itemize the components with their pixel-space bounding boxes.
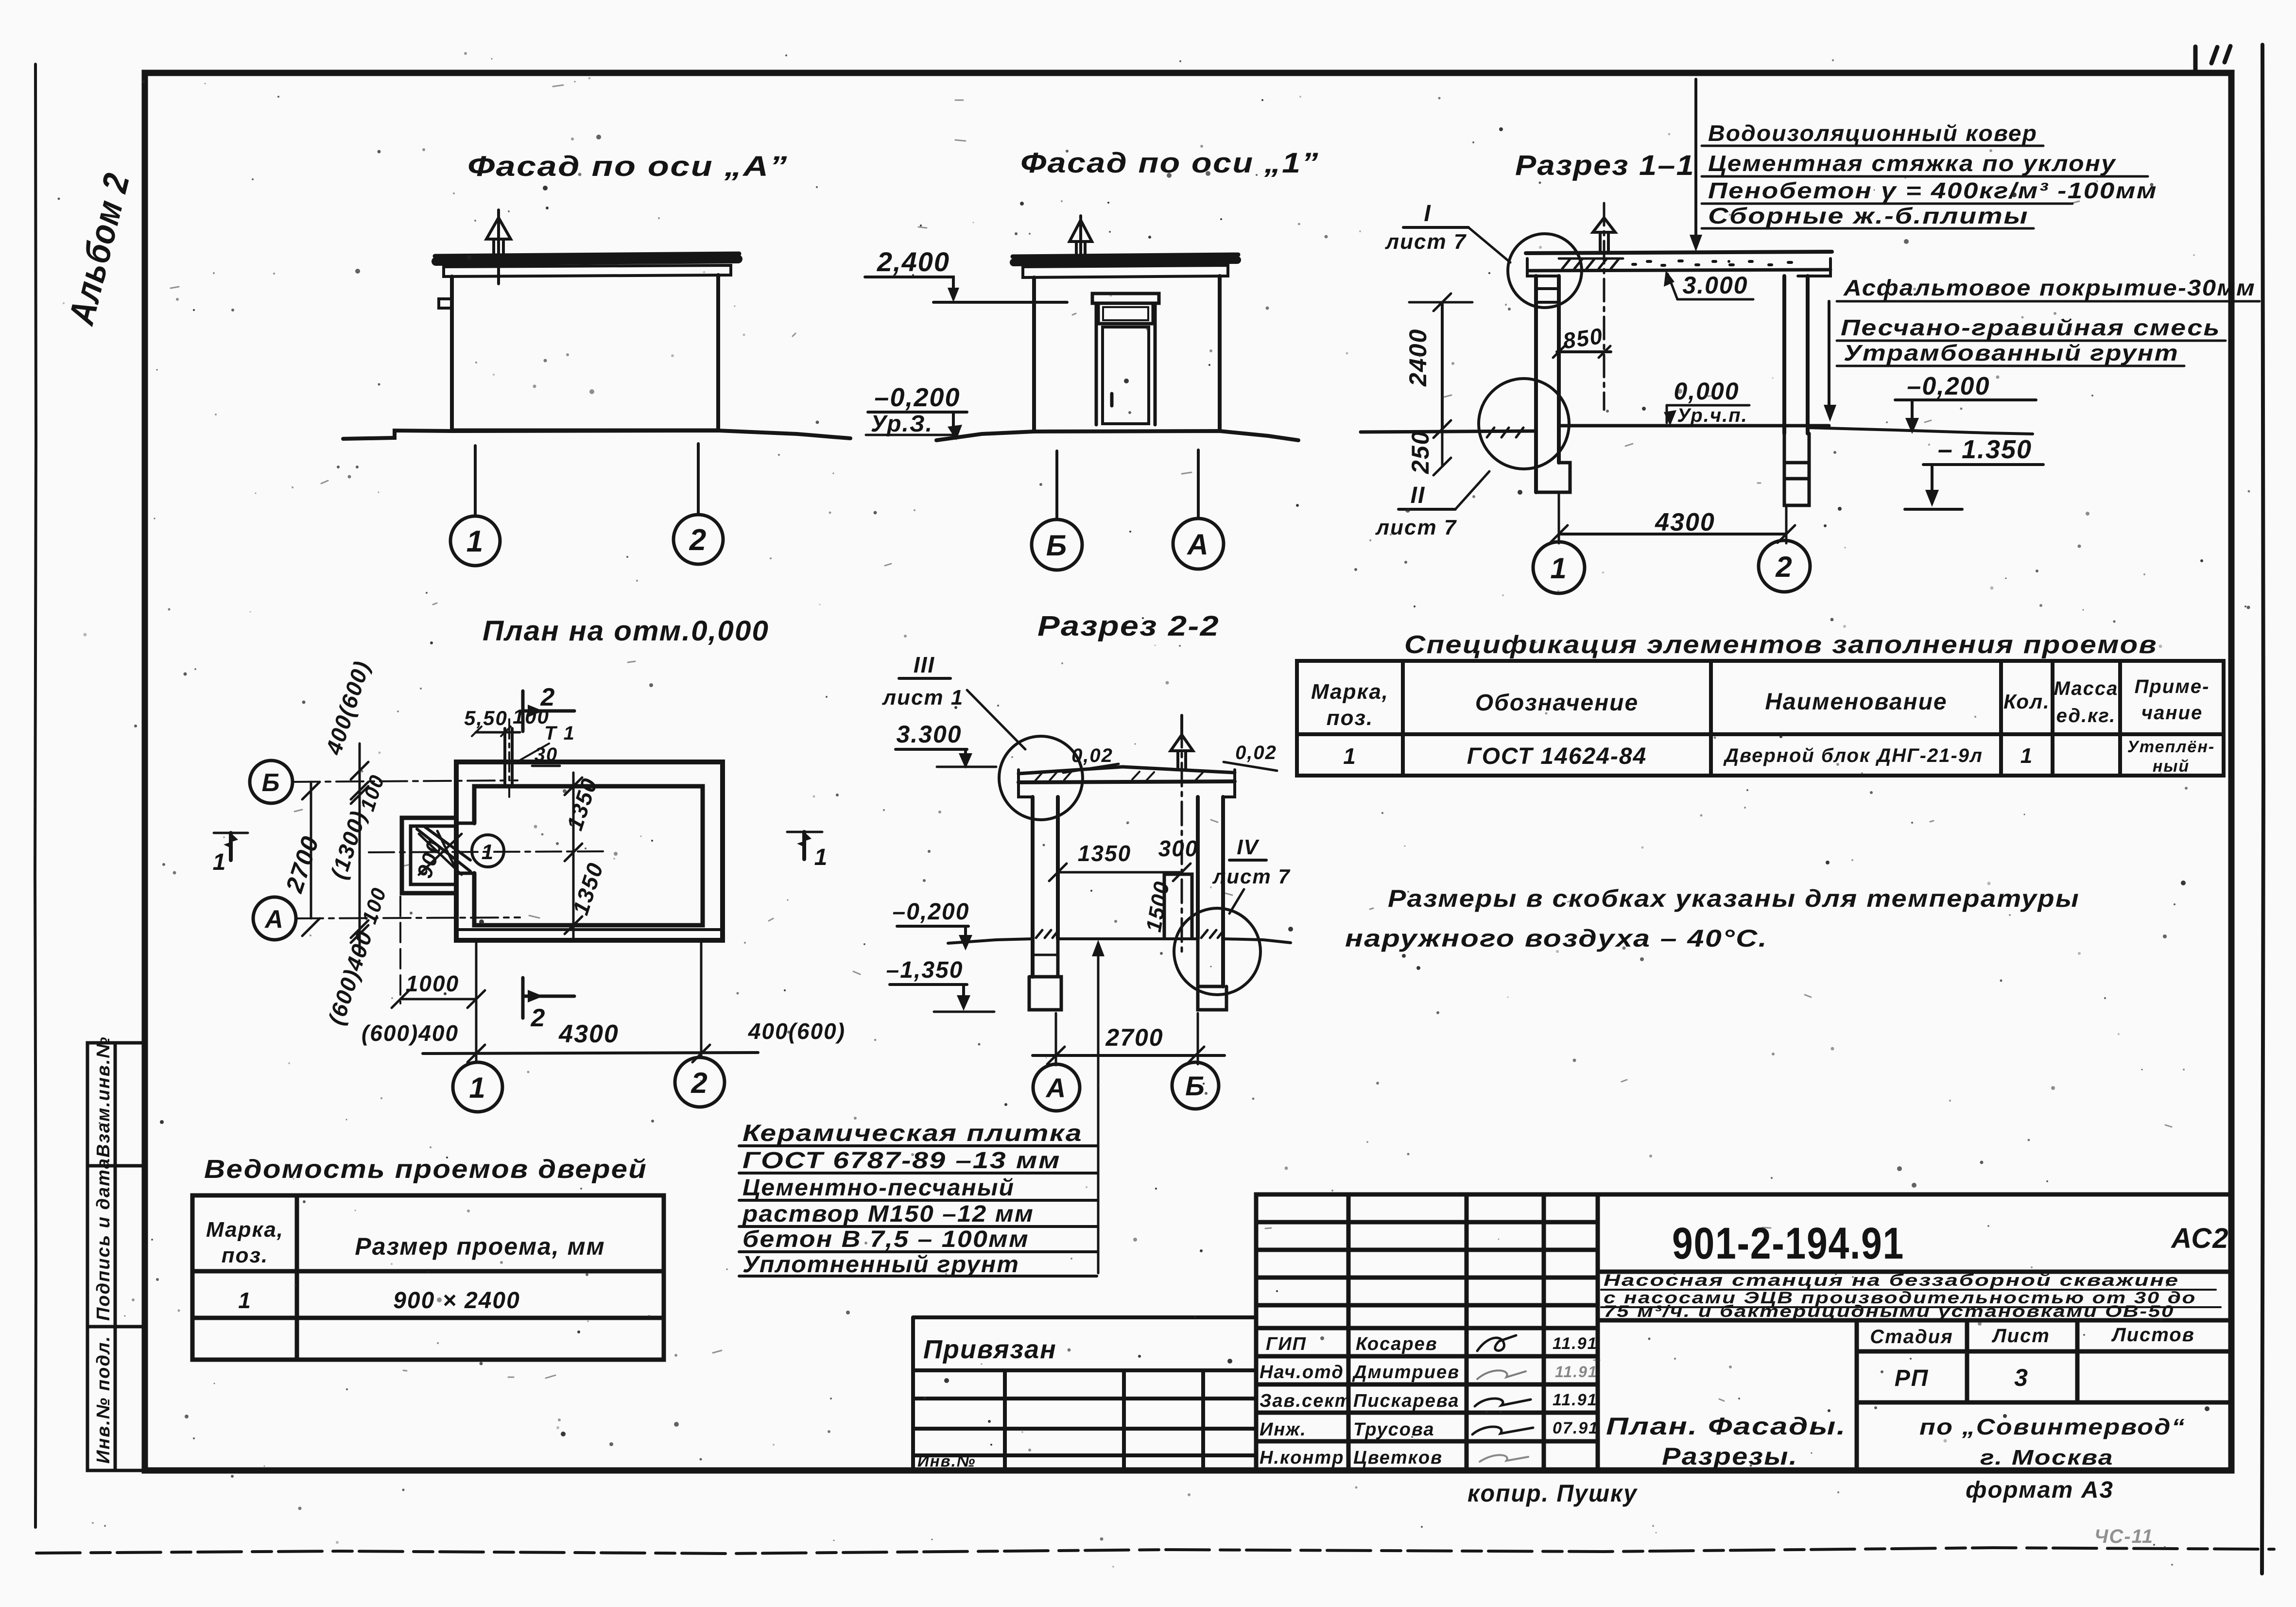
section mark 2 bottom bbox=[523, 978, 574, 1018]
svg-text:400(600): 400(600) bbox=[321, 657, 375, 758]
door opening jambs bbox=[456, 823, 474, 873]
svg-text:Цветков: Цветков bbox=[1353, 1448, 1443, 1468]
svg-text:0,02: 0,02 bbox=[1235, 742, 1277, 763]
right cornice bbox=[1798, 259, 1830, 276]
axis circle 1 bbox=[450, 516, 500, 566]
svg-text:Марка,: Марка, bbox=[206, 1218, 284, 1242]
svg-text:лист 1: лист 1 bbox=[882, 686, 964, 709]
vestibule inner walls bbox=[411, 826, 456, 884]
axis 2 leader line bbox=[697, 444, 700, 515]
vestibule diagonal cross bbox=[419, 834, 462, 875]
svg-text:Ур.ч.п.: Ур.ч.п. bbox=[1677, 405, 1748, 426]
svg-text:3.300: 3.300 bbox=[896, 721, 962, 748]
svg-text:2700: 2700 bbox=[1105, 1024, 1163, 1051]
svg-text:1: 1 bbox=[2020, 744, 2033, 768]
axis circle 1 bbox=[1533, 542, 1585, 593]
cornice bbox=[1023, 265, 1228, 277]
right wall foundation blocks bbox=[1784, 433, 1809, 505]
roof slab sloped bbox=[1019, 767, 1235, 774]
svg-text:Нач.отд: Нач.отд bbox=[1260, 1362, 1344, 1382]
section mark 1-1 left bbox=[229, 833, 233, 860]
svg-text:Пискарева: Пискарева bbox=[1353, 1391, 1459, 1411]
door block: head casing bbox=[1092, 294, 1159, 303]
svg-text:Б: Б bbox=[262, 769, 281, 797]
left vertical dim 2700 bbox=[310, 782, 312, 918]
svg-text:2400: 2400 bbox=[1404, 328, 1432, 387]
svg-text:3: 3 bbox=[2014, 1364, 2029, 1391]
svg-text:Привязан: Привязан bbox=[923, 1335, 1057, 1364]
svg-text:Б: Б bbox=[1046, 529, 1068, 562]
svg-text:1: 1 bbox=[1343, 743, 1357, 769]
main drawing frame bbox=[145, 73, 2231, 1470]
svg-text:Кол.: Кол. bbox=[2003, 690, 2050, 713]
axis 2 extension below bbox=[700, 943, 703, 1057]
svg-text:копир. Пушку: копир. Пушку bbox=[1467, 1480, 1638, 1507]
svg-text:Цементно-песчаный: Цементно-песчаный bbox=[742, 1175, 1015, 1201]
svg-text:Водоизоляционный ковер: Водоизоляционный ковер bbox=[1708, 121, 2037, 146]
spec table grid bbox=[1297, 661, 2224, 776]
roof slab gravel dots bbox=[1633, 261, 1792, 265]
building walls bbox=[452, 275, 718, 430]
svg-text:раствор М150 –12 мм: раствор М150 –12 мм bbox=[742, 1201, 1034, 1227]
roof notes leader arrow bbox=[1694, 79, 1697, 243]
svg-text:ГОСТ 6787-89 –13 мм: ГОСТ 6787-89 –13 мм bbox=[742, 1148, 1061, 1174]
axis circle 2 bbox=[673, 515, 723, 564]
svg-text:III: III bbox=[914, 652, 935, 677]
svg-text:по „Совинтервод“: по „Совинтервод“ bbox=[1919, 1414, 2186, 1439]
floor leader vertical with up arrow bbox=[1097, 945, 1100, 1273]
detail circle IV bbox=[1174, 908, 1260, 995]
svg-text:Разрезы.: Разрезы. bbox=[1662, 1443, 1798, 1470]
svg-text:1: 1 bbox=[814, 845, 829, 870]
svg-text:лист 7: лист 7 bbox=[1212, 865, 1291, 888]
svg-text:4300: 4300 bbox=[1655, 508, 1715, 536]
axis circle B bbox=[1032, 519, 1082, 570]
svg-text:1: 1 bbox=[466, 525, 484, 558]
svg-text:II: II bbox=[1411, 483, 1426, 508]
svg-text:ГИП: ГИП bbox=[1266, 1334, 1307, 1354]
svg-text:Инв.№: Инв.№ bbox=[917, 1452, 976, 1470]
svg-text:ед.кг.: ед.кг. bbox=[2056, 705, 2116, 726]
svg-text:ГОСТ 14624-84: ГОСТ 14624-84 bbox=[1467, 743, 1647, 769]
svg-text:400(600): 400(600) bbox=[748, 1019, 846, 1044]
svg-text:Косарев: Косарев bbox=[1356, 1334, 1438, 1354]
svg-text:Разрез 2-2: Разрез 2-2 bbox=[1037, 610, 1220, 642]
svg-text:Дверной блок ДНГ-21-9л: Дверной блок ДНГ-21-9л bbox=[1723, 745, 1983, 766]
svg-text:300: 300 bbox=[1158, 836, 1199, 861]
svg-text:– 1.350: – 1.350 bbox=[1938, 435, 2032, 464]
svg-text:Керамическая плитка: Керамическая плитка bbox=[742, 1121, 1083, 1146]
paper left edge line bbox=[35, 64, 36, 1527]
svg-text:РП: РП bbox=[1895, 1365, 1929, 1391]
svg-text:Размеры в скобках указаны: Размеры в скобках указаны для температур… bbox=[1388, 885, 2080, 912]
svg-text:I: I bbox=[1424, 201, 1431, 226]
svg-text:5,50: 5,50 bbox=[464, 707, 508, 729]
bottom dim line bbox=[423, 1053, 758, 1054]
svg-text:–0,200: –0,200 bbox=[874, 383, 960, 412]
section mark 1-1 right bbox=[802, 832, 806, 859]
svg-text:лист 7: лист 7 bbox=[1385, 230, 1467, 254]
svg-text:ный: ный bbox=[2153, 757, 2190, 776]
left roof cornice bbox=[1019, 770, 1033, 797]
cornice bbox=[444, 265, 731, 276]
axis circle A bottom bbox=[1033, 1064, 1080, 1111]
vent pipe axis dash-dot bbox=[1181, 724, 1183, 951]
svg-text:2: 2 bbox=[689, 523, 707, 557]
plan inner wall rectangle bbox=[474, 786, 703, 925]
detail circle II bbox=[1479, 379, 1569, 469]
vent pipe axis dash-dot bbox=[1603, 203, 1605, 410]
door transom window bbox=[1098, 303, 1153, 324]
axis A dash-dot line bbox=[296, 917, 520, 918]
vent pipe with hollow arrow bbox=[486, 210, 511, 284]
left wall section bbox=[1033, 797, 1058, 977]
small latch on left wall bbox=[439, 299, 452, 308]
left attribute strip: Vzam.inv.N / Podpis i data / Inv.N podl. bbox=[87, 1043, 145, 1470]
left wall footing bbox=[1536, 463, 1570, 492]
svg-text:Утеплён-: Утеплён- bbox=[2127, 738, 2215, 756]
building walls bbox=[1034, 276, 1220, 431]
left wall bbox=[1536, 276, 1559, 492]
door leaf bbox=[1103, 327, 1149, 424]
svg-text:Сборные ж.-б.плиты: Сборные ж.-б.плиты bbox=[1708, 203, 2029, 228]
svg-text:Взам.инв.№: Взам.инв.№ bbox=[93, 1036, 114, 1158]
svg-text:Асфальтовое покрытие-30мм: Асфальтовое покрытие-30мм bbox=[1843, 275, 2256, 300]
ground line bbox=[343, 431, 850, 439]
svg-text:–1,350: –1,350 bbox=[886, 957, 964, 983]
detail circle I bbox=[1508, 234, 1582, 308]
svg-text:900 × 2400: 900 × 2400 bbox=[393, 1288, 520, 1313]
svg-text:30: 30 bbox=[535, 744, 558, 765]
axis circle 2 bbox=[1759, 540, 1810, 592]
svg-text:Уплотненный грунт: Уплотненный грунт bbox=[742, 1252, 1019, 1278]
svg-text:Фасад по оси „А”: Фасад по оси „А” bbox=[467, 151, 788, 182]
axis circle B bottom bbox=[1172, 1062, 1219, 1109]
horizontal door axis dash-dot bbox=[369, 851, 603, 852]
axis 1 leader line bbox=[474, 446, 477, 516]
right margin vertical line bbox=[2262, 45, 2263, 1573]
axis circle A left bbox=[253, 897, 296, 940]
svg-text:–0,200: –0,200 bbox=[1907, 372, 1990, 400]
svg-text:Б: Б bbox=[1185, 1071, 1206, 1101]
svg-text:Н.контр: Н.контр bbox=[1260, 1448, 1344, 1468]
svg-text:850: 850 bbox=[1561, 323, 1605, 354]
svg-text:Инж.: Инж. bbox=[1260, 1419, 1307, 1440]
svg-text:11.91: 11.91 bbox=[1553, 1334, 1598, 1353]
svg-text:Альбом 2: Альбом 2 bbox=[61, 169, 138, 329]
axis circle B left bbox=[250, 760, 293, 803]
interior partition line bottom bbox=[456, 928, 723, 931]
svg-text:Марка,: Марка, bbox=[1311, 680, 1389, 704]
svg-text:Инв.№ подл.: Инв.№ подл. bbox=[93, 1335, 114, 1464]
axis circle 2 bottom bbox=[675, 1057, 725, 1107]
svg-text:1: 1 bbox=[238, 1288, 252, 1313]
svg-text:АС2: АС2 bbox=[2170, 1223, 2229, 1254]
right foundation bbox=[1198, 939, 1226, 1010]
svg-text:Подпись и дата: Подпись и дата bbox=[93, 1158, 114, 1321]
door handle mark bbox=[1110, 394, 1114, 406]
svg-text:Песчано-гравийная смесь: Песчано-гравийная смесь bbox=[1841, 315, 2221, 340]
bottom paper fold dashed line bbox=[36, 1548, 2274, 1554]
svg-text:2: 2 bbox=[1775, 551, 1793, 583]
svg-text:2,400: 2,400 bbox=[877, 246, 950, 277]
axis A leader line bbox=[1197, 450, 1200, 518]
vent pipe with hollow arrow bbox=[1070, 216, 1092, 257]
svg-text:4300: 4300 bbox=[558, 1020, 619, 1048]
svg-text:наружного воздуха – 40°С.: наружного воздуха – 40°С. bbox=[1345, 925, 1768, 952]
svg-text:Пенобетон γ = 400кг/м³ -100мм: Пенобетон γ = 400кг/м³ -100мм bbox=[1708, 178, 2158, 203]
plan outer wall rectangle bbox=[456, 762, 723, 940]
wall base line bbox=[452, 429, 718, 432]
ground notes leader arrow bbox=[1828, 301, 1830, 413]
floor line bbox=[1559, 424, 1829, 428]
room interior vertical dim line bbox=[572, 773, 575, 938]
sheet number mark 11 bbox=[2211, 46, 2230, 63]
detail circle III bbox=[999, 736, 1083, 820]
svg-text:07.91: 07.91 bbox=[1553, 1419, 1599, 1437]
vestibule dashed extension bbox=[399, 897, 401, 1003]
svg-text:Цементная стяжка по уклону: Цементная стяжка по уклону bbox=[1708, 151, 2116, 176]
roof slab dark band bbox=[1013, 255, 1238, 257]
vent pipe hollow arrow bbox=[1178, 751, 1186, 769]
dim 250 vertical bbox=[1433, 429, 1451, 475]
svg-text:ЧС-11: ЧС-11 bbox=[2094, 1526, 2154, 1547]
svg-text:бетон В 7,5 – 100мм: бетон В 7,5 – 100мм bbox=[742, 1227, 1029, 1252]
svg-text:2700: 2700 bbox=[280, 832, 324, 897]
svg-text:(600)400: (600)400 bbox=[362, 1020, 459, 1046]
dim 2400 vertical bbox=[1441, 302, 1444, 429]
ground line bbox=[936, 431, 1298, 440]
vent pipe with hollow arrow bbox=[1600, 232, 1608, 252]
svg-text:Насосная станция на беззаборно: Насосная станция на беззаборной скважине bbox=[1604, 1271, 2179, 1290]
svg-text:Зав.сект: Зав.сект bbox=[1260, 1391, 1352, 1411]
svg-text:Ведомость проемов дверей: Ведомость проемов дверей bbox=[204, 1155, 647, 1184]
section roof slab bbox=[1526, 252, 1832, 253]
svg-text:901-2-194.91: 901-2-194.91 bbox=[1672, 1219, 1904, 1268]
svg-text:Разрез 1–1: Разрез 1–1 bbox=[1515, 150, 1695, 181]
svg-text:1000: 1000 bbox=[406, 971, 459, 996]
axis circle 1 bottom bbox=[453, 1062, 502, 1112]
svg-text:План. Фасады.: План. Фасады. bbox=[1606, 1413, 1847, 1440]
roof hatch bbox=[1035, 772, 1203, 781]
svg-text:0,000: 0,000 bbox=[1674, 378, 1739, 405]
svg-text:Наименование: Наименование bbox=[1765, 689, 1947, 715]
svg-text:Т 1: Т 1 bbox=[544, 723, 575, 744]
axis circle A bbox=[1173, 518, 1224, 569]
door leaf open with swing bbox=[417, 826, 470, 871]
svg-text:А: А bbox=[1045, 1072, 1067, 1103]
svg-text:А: А bbox=[264, 905, 284, 933]
svg-text:2: 2 bbox=[691, 1067, 708, 1099]
roof slab (dark band) bbox=[435, 254, 739, 256]
axis B leader line bbox=[1055, 451, 1058, 518]
svg-text:–0,200: –0,200 bbox=[893, 899, 970, 925]
ground line wavy bbox=[948, 939, 1291, 943]
svg-text:Спецификация элементов заполне: Спецификация элементов заполнения проемо… bbox=[1404, 631, 2158, 659]
left vertical dim chain line bbox=[359, 743, 361, 952]
left foundation bbox=[1029, 939, 1061, 1010]
svg-text:Размер проема, мм: Размер проема, мм bbox=[355, 1233, 605, 1260]
svg-text:лист 7: лист 7 bbox=[1375, 516, 1457, 539]
wall cut hatch right bbox=[1201, 930, 1223, 938]
svg-text:(600)400: (600)400 bbox=[323, 928, 377, 1028]
svg-text:11.91: 11.91 bbox=[1555, 1363, 1598, 1381]
svg-text:IV: IV bbox=[1237, 835, 1260, 859]
svg-text:чание: чание bbox=[2141, 702, 2203, 724]
svg-text:100: 100 bbox=[358, 884, 391, 927]
svg-text:11.91: 11.91 bbox=[1553, 1391, 1598, 1409]
svg-text:250: 250 bbox=[1407, 431, 1434, 474]
door opening in section bbox=[1164, 874, 1192, 937]
svg-text:1: 1 bbox=[213, 849, 227, 875]
svg-text:Листов: Листов bbox=[2111, 1324, 2195, 1346]
svg-text:(1300): (1300) bbox=[326, 807, 371, 882]
riser pipe in top wall bbox=[505, 728, 512, 786]
svg-text:поз.: поз. bbox=[222, 1244, 268, 1267]
svg-text:Ур.З.: Ур.З. bbox=[871, 411, 933, 437]
door frame bbox=[1096, 303, 1155, 425]
vedomost grid bbox=[192, 1195, 664, 1360]
svg-text:75 м³/ч. и бактерицидными уста: 75 м³/ч. и бактерицидными установками ОВ… bbox=[1604, 1302, 2175, 1321]
right wall section bbox=[1198, 797, 1223, 986]
right ground line bbox=[1808, 428, 2033, 434]
svg-text:Утрамбованный грунт: Утрамбованный грунт bbox=[1844, 340, 2179, 365]
svg-text:2: 2 bbox=[531, 1004, 546, 1032]
left cornice bbox=[1527, 259, 1559, 276]
scan noise specks bbox=[156, 99, 2210, 1451]
vestibule outer walls bbox=[402, 818, 456, 893]
svg-text:формат А3: формат А3 bbox=[1966, 1477, 2114, 1503]
svg-text:А: А bbox=[1186, 528, 1209, 561]
svg-text:поз.: поз. bbox=[1327, 706, 1373, 730]
svg-text:Приме-: Приме- bbox=[2135, 676, 2210, 697]
wall cut hatch left bbox=[1036, 930, 1058, 938]
axis 1 extension below bbox=[475, 943, 478, 1062]
svg-text:2: 2 bbox=[540, 683, 556, 711]
left wall console bbox=[1536, 289, 1559, 302]
svg-text:Лист: Лист bbox=[1991, 1325, 2050, 1347]
svg-text:1350: 1350 bbox=[1078, 841, 1131, 866]
left ground line bbox=[1361, 431, 1536, 432]
right wall bbox=[1784, 276, 1808, 433]
right roof cornice bbox=[1223, 770, 1235, 797]
svg-text:1350: 1350 bbox=[562, 775, 603, 833]
door mark circle 1 bbox=[472, 835, 504, 867]
svg-text:1: 1 bbox=[469, 1071, 486, 1104]
svg-text:1: 1 bbox=[1550, 552, 1567, 585]
svg-text:Обозначение: Обозначение bbox=[1475, 690, 1639, 716]
svg-text:3.000: 3.000 bbox=[1682, 272, 1748, 299]
svg-text:0,02: 0,02 bbox=[1071, 745, 1113, 766]
svg-text:План на отм.0,000: План на отм.0,000 bbox=[483, 615, 769, 647]
svg-text:Стадия: Стадия bbox=[1870, 1326, 1953, 1348]
svg-text:г. Москва: г. Москва bbox=[1980, 1446, 2114, 1469]
top-right corner tick bbox=[2193, 47, 2198, 73]
svg-text:Дмитриев: Дмитриев bbox=[1352, 1362, 1460, 1382]
svg-text:Масса: Масса bbox=[2054, 678, 2119, 699]
axis B dash-dot line bbox=[293, 780, 518, 782]
svg-text:1500: 1500 bbox=[1142, 879, 1174, 934]
roof slab hatching bbox=[1559, 259, 1623, 269]
svg-text:Трусова: Трусова bbox=[1353, 1419, 1435, 1440]
